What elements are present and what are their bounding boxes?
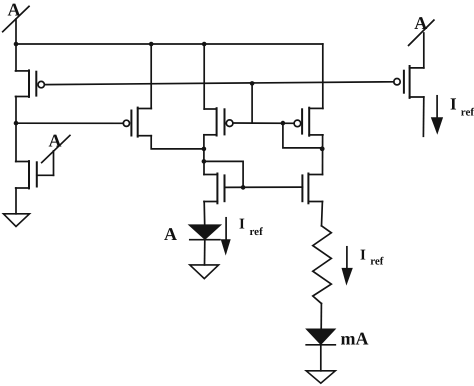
svg-text:ref: ref <box>250 226 264 238</box>
transistor M8 (NMOS cascode, gate to terminal A) <box>16 151 54 189</box>
ground G3 <box>306 371 335 383</box>
wire: M8 source to ground <box>15 188 17 214</box>
svg-text:ref: ref <box>461 107 474 119</box>
wire: gate line between M3 and M4 bubbles <box>233 122 294 124</box>
svg-text:A: A <box>49 131 62 151</box>
wire: M2 source down and right to node N3 <box>151 136 204 149</box>
ground G2 <box>190 265 219 279</box>
transistor M1 (PMOS, top left) <box>16 70 45 97</box>
ground G1 <box>3 214 29 227</box>
node N1 <box>14 42 19 47</box>
wire: gate line M5 to M6 <box>225 186 303 188</box>
resistor R1 <box>313 226 332 304</box>
wire: gate rail (M1 gate to M7 gate) <box>44 82 393 85</box>
current arrow I_ref (middle branch) <box>221 218 231 256</box>
transistor M3 (PMOS mirror, right) <box>204 108 233 135</box>
wire: top rail down to M3 drain <box>203 44 205 109</box>
node on gate rail above M3/M4 <box>250 81 255 86</box>
label I_ref (middle branch) <box>239 217 263 238</box>
current arrow I_ref (M7 output) <box>431 96 443 135</box>
current arrow I_ref (output branch) <box>342 247 353 286</box>
wire: N1 down to M1 drain <box>15 44 17 71</box>
node N6 at M4 source / M6 drain <box>320 146 325 151</box>
node N3 <box>202 147 207 152</box>
wire: M1 source down to node N2 <box>15 97 17 124</box>
svg-text:ref: ref <box>370 256 384 268</box>
terminal A at M8 gate <box>42 131 70 163</box>
wire: top rail down to M2 drain <box>150 44 152 109</box>
node on top rail at M2 leg <box>149 42 154 47</box>
svg-text:A: A <box>414 13 427 33</box>
label I_ref (M7 output) <box>450 95 474 119</box>
label I_ref (output branch) <box>360 248 384 268</box>
svg-text:I: I <box>450 95 457 114</box>
wire: terminal A down to M7 drain <box>423 33 425 68</box>
diode D2 (output, label mA) <box>306 329 335 344</box>
transistor M5 (NMOS diode-connected) <box>204 174 225 204</box>
node N4 <box>202 159 207 164</box>
node on M3/M4 gate line <box>281 121 286 126</box>
wire: gate rail from N2 to M2 gate bubble <box>16 122 123 124</box>
svg-text:I: I <box>239 217 245 233</box>
diode D1 (reference, label A) <box>190 225 220 240</box>
node on top rail at M3 leg <box>202 42 207 47</box>
wire: D1 cathode to ground <box>204 240 206 265</box>
wire: M3 source down through N3 to N4 <box>203 135 205 162</box>
svg-text:A: A <box>8 0 21 20</box>
wire: N4 down to M5 drain <box>203 161 205 174</box>
wire: M5 source down to diode D1 <box>203 202 206 226</box>
wire: N4 right and down to M5/M6 gate node N5 <box>204 161 243 187</box>
wire: M4 source down through N6 to M6 drain <box>322 135 324 175</box>
node N5 on M5/M6 gate line <box>241 185 246 190</box>
wire: rail node down to M3/M4 gate line <box>251 83 253 123</box>
supply terminal A (top left) <box>3 0 29 32</box>
wire: top rail right end down to M4 drain <box>322 44 324 108</box>
transistor M2 (PMOS mirror, left) <box>123 108 151 137</box>
wire: D2 cathode to ground <box>320 345 322 371</box>
supply terminal A (top right) <box>409 13 434 46</box>
svg-text:A: A <box>164 224 177 244</box>
node N2 <box>14 121 19 126</box>
svg-text:I: I <box>360 248 366 264</box>
wire: M6 source down to resistor R1 <box>321 202 324 226</box>
transistor M7 (PMOS output device, top right) <box>394 66 424 98</box>
transistor M6 (NMOS mirror output) <box>302 174 322 204</box>
svg-text:mA: mA <box>341 329 369 349</box>
wire: M7 source output lead (open end) <box>422 97 424 136</box>
wire: terminal A lead down to node N1 <box>15 19 17 44</box>
wire: R1 to diode D2 <box>320 304 322 330</box>
transistor M4 (PMOS diode-connected, right) <box>294 108 323 136</box>
wire: N2 down to M8 drain <box>15 123 17 161</box>
wire: top supply rail <box>16 43 323 45</box>
wire: M4 gate feedback to its drain node <box>283 123 323 148</box>
